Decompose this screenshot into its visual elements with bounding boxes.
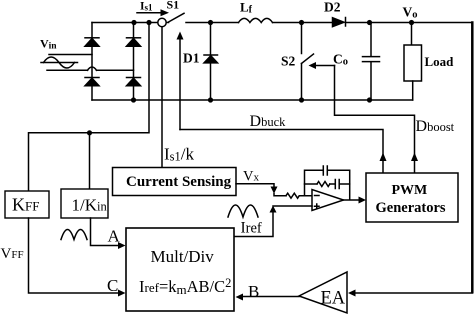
svg-text:PWM: PWM bbox=[392, 183, 428, 198]
svg-text:Current Sensing: Current Sensing bbox=[126, 174, 232, 190]
svg-text:S1: S1 bbox=[167, 0, 180, 12]
svg-text:C: C bbox=[107, 276, 118, 295]
svg-text:Dboost: Dboost bbox=[416, 118, 455, 135]
svg-text:Load: Load bbox=[425, 54, 455, 69]
svg-text:Vx: Vx bbox=[243, 169, 259, 185]
svg-text:VFF: VFF bbox=[1, 246, 24, 262]
svg-text:EA: EA bbox=[321, 289, 346, 309]
svg-text:S2: S2 bbox=[281, 54, 296, 69]
svg-text:Iref: Iref bbox=[241, 220, 262, 237]
svg-text:Is1: Is1 bbox=[140, 1, 153, 13]
svg-text:A: A bbox=[108, 227, 121, 246]
svg-text:Mult/Div: Mult/Div bbox=[151, 247, 215, 266]
svg-text:D1: D1 bbox=[183, 51, 200, 66]
svg-text:B: B bbox=[248, 282, 259, 301]
svg-text:Generators: Generators bbox=[376, 200, 446, 216]
svg-text:Dbuck: Dbuck bbox=[250, 113, 287, 130]
svg-text:D2: D2 bbox=[324, 0, 341, 15]
